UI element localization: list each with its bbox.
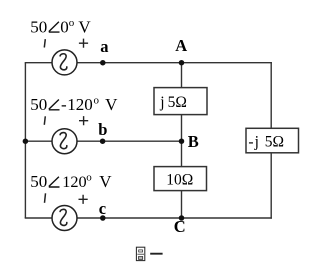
- svg-text:-: -: [248, 133, 253, 150]
- svg-text:-: -: [61, 95, 67, 114]
- wire: phase a row from source V1 through node a and node A to right corner: [77, 62, 272, 64]
- node C junction dot: [179, 215, 185, 221]
- V3 negative terminal tick: [45, 193, 46, 203]
- svg-text:10Ω: 10Ω: [166, 171, 193, 188]
- svg-text:5Ω: 5Ω: [265, 133, 284, 150]
- wire: phase c row from source V3 through node c and node C to right corner: [77, 217, 272, 219]
- svg-text:50: 50: [30, 95, 47, 114]
- V2 negative terminal tick: [44, 116, 45, 125]
- V2 positive terminal plus: [79, 116, 88, 125]
- wire: right branch lower segment: [270, 153, 272, 219]
- caption character TU (figure): [136, 247, 144, 260]
- wire: center bus from j5 box through node B down to 10ohm box: [181, 115, 183, 168]
- svg-text:50: 50: [30, 17, 47, 36]
- V1 positive terminal plus: [79, 39, 88, 48]
- wire: left vertical neutral bus: [24, 63, 26, 218]
- caption character YI (one): [150, 253, 162, 255]
- wire: phase c row left segment: [25, 217, 52, 219]
- svg-text:0: 0: [60, 17, 69, 36]
- voltage source V2 circle: [52, 129, 77, 154]
- svg-text:b: b: [98, 120, 107, 139]
- V1 negative terminal tick: [44, 39, 45, 47]
- V1 angle symbol: [49, 22, 60, 32]
- svg-text:o: o: [94, 95, 100, 107]
- neutral bus junction dot at V2 row: [23, 138, 29, 144]
- V3 positive terminal plus: [79, 195, 88, 204]
- V3 angle symbol: [49, 177, 60, 187]
- V2 angle symbol: [49, 100, 60, 110]
- svg-text:50: 50: [30, 172, 47, 191]
- inductor box j5ohm between node A and node B: [154, 88, 207, 115]
- svg-text:a: a: [100, 37, 108, 56]
- svg-text:5Ω: 5Ω: [168, 94, 187, 111]
- svg-text:V: V: [105, 95, 118, 114]
- voltage source V1 sine symbol: [60, 54, 67, 70]
- node c junction dot: [100, 215, 106, 221]
- voltage source V2 sine symbol: [60, 133, 67, 149]
- svg-text:120: 120: [67, 95, 93, 114]
- wire: center bus from 10ohm box down to node C: [181, 191, 183, 219]
- svg-text:c: c: [99, 199, 106, 218]
- svg-text:o: o: [69, 17, 75, 29]
- svg-text:120: 120: [62, 172, 86, 191]
- wire: center bus from node A down to j5 box: [181, 63, 183, 88]
- svg-text:V: V: [99, 172, 112, 191]
- voltage source V3 circle: [52, 206, 77, 231]
- wire: phase b row left segment: [25, 140, 52, 142]
- svg-text:o: o: [86, 172, 92, 184]
- voltage source V1 circle: [52, 50, 77, 75]
- wire: phase a row left segment: [25, 62, 52, 64]
- node B junction dot: [179, 138, 185, 144]
- svg-text:j: j: [254, 133, 259, 150]
- voltage source V3 sine symbol: [60, 209, 67, 225]
- resistor box 10ohm between node B and node C: [154, 167, 207, 191]
- svg-text:B: B: [188, 132, 199, 151]
- svg-text:C: C: [174, 217, 186, 236]
- node A junction dot: [179, 60, 185, 65]
- svg-text:j: j: [159, 94, 164, 111]
- svg-text:V: V: [78, 17, 91, 36]
- wire: phase b row from source V2 through node b to node B: [77, 140, 181, 142]
- node a junction dot: [100, 60, 106, 65]
- svg-text:A: A: [175, 36, 187, 55]
- capacitor box -j5ohm on right branch: [246, 128, 299, 153]
- node b junction dot: [100, 138, 106, 144]
- wire: right branch upper segment: [270, 62, 272, 129]
